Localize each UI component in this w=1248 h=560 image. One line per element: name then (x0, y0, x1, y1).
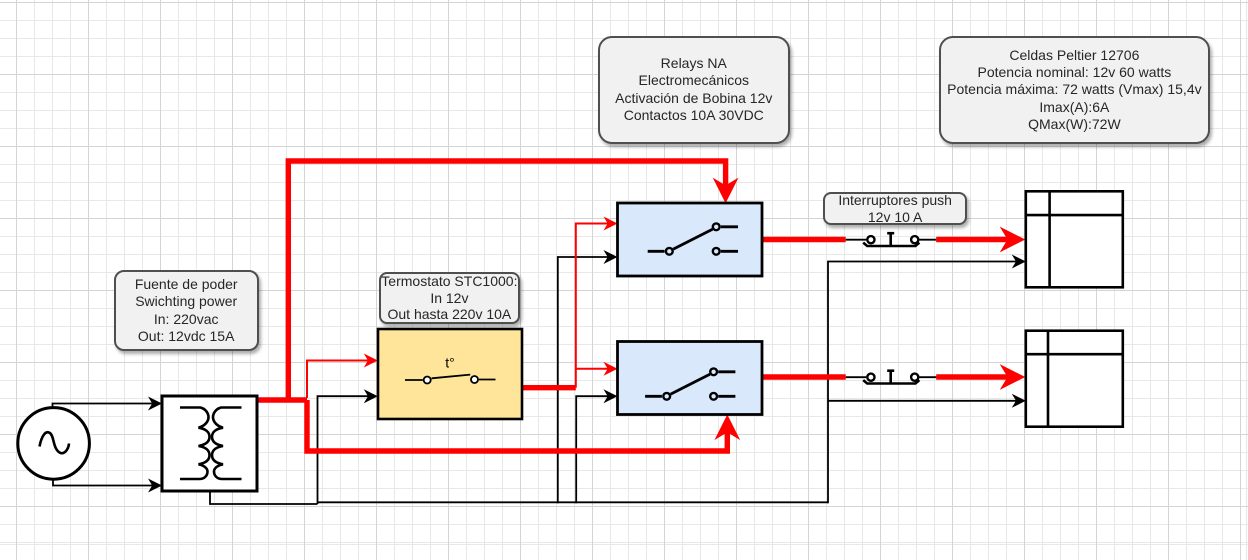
svg-text:t°: t° (445, 355, 455, 371)
